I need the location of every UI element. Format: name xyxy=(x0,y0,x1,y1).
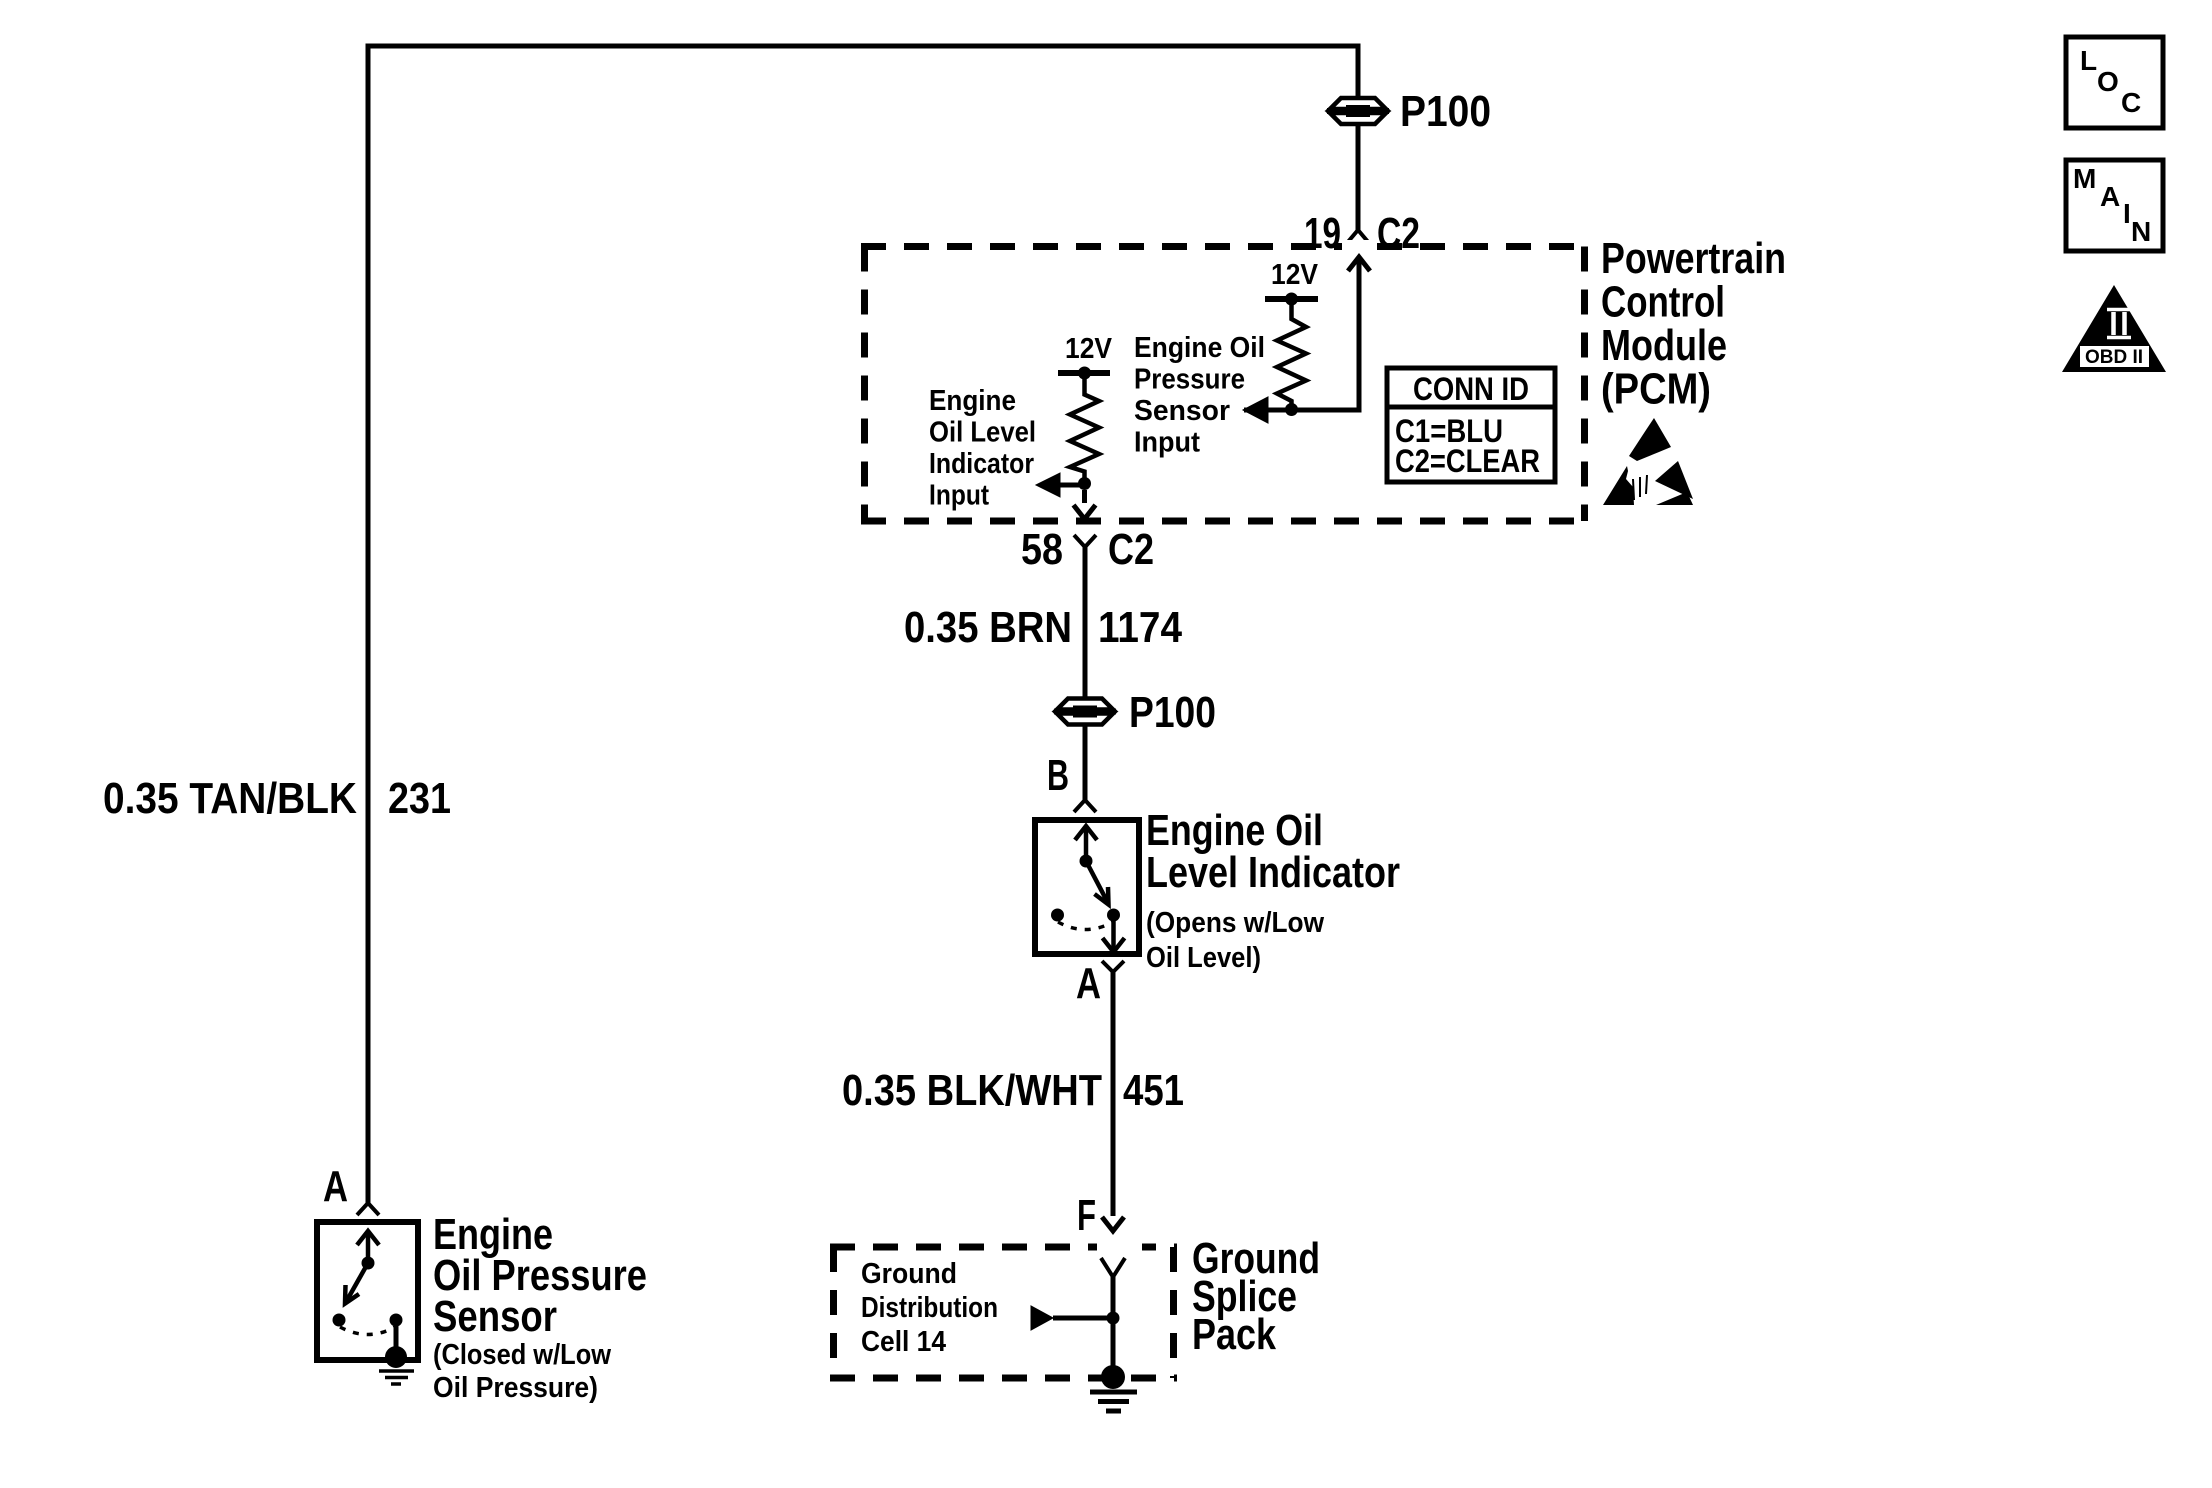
svg-text:M: M xyxy=(2073,163,2096,194)
sensor switch common arrow (pin A side) xyxy=(357,1231,379,1263)
svg-text:Pack: Pack xyxy=(1192,1310,1276,1359)
svg-text:0.35 BRN: 0.35 BRN xyxy=(904,603,1072,652)
svg-text:Sensor: Sensor xyxy=(1134,395,1230,427)
level indicator open contact dot (left) xyxy=(1051,909,1064,922)
node dot at bottom of R2 xyxy=(1285,403,1298,416)
feed from Ground Distribution Cell 14 xyxy=(1031,1306,1113,1330)
svg-text:Powertrain: Powertrain xyxy=(1601,234,1786,283)
splice junction dot xyxy=(1107,1312,1120,1325)
label (Opens w/Low Oil Level) xyxy=(1146,907,1324,974)
svg-text:Cell 14: Cell 14 xyxy=(861,1326,946,1358)
svg-text:Pressure: Pressure xyxy=(1134,364,1245,396)
svg-text:12V: 12V xyxy=(1065,333,1113,365)
svg-text:Indicator: Indicator xyxy=(929,448,1034,480)
svg-text:0.35 BLK/WHT: 0.35 BLK/WHT xyxy=(842,1066,1102,1115)
svg-text:Input: Input xyxy=(1134,427,1200,459)
wire 231 from sensor pin A up and across to P100 xyxy=(368,46,1358,1203)
label Engine Oil Pressure Sensor xyxy=(433,1210,647,1341)
label pin B xyxy=(1047,751,1069,800)
label pin A (pressure sensor) xyxy=(323,1162,348,1211)
level indicator dashed travel arc xyxy=(1058,922,1113,930)
sensor switch pivot dot xyxy=(362,1257,375,1270)
svg-text:B: B xyxy=(1047,751,1069,800)
Engine Oil Level Indicator box xyxy=(1035,820,1139,954)
level indicator switch arm (arrow toward closed contact) xyxy=(1086,861,1109,905)
svg-text:L: L xyxy=(2080,45,2097,76)
svg-text:1174: 1174 xyxy=(1098,603,1182,652)
svg-text:F: F xyxy=(1077,1191,1096,1240)
label Powertrain Control Module (PCM) xyxy=(1601,234,1786,414)
wire 1174 from pin 58 to P100 xyxy=(1083,547,1088,697)
12V supply bar (right resistor) xyxy=(1265,296,1318,302)
ESD susceptibility symbol xyxy=(1603,418,1693,505)
wire from P100 down to PCM pin 19 xyxy=(1356,124,1361,230)
wire from closed contact to sensor ground xyxy=(394,1320,399,1352)
svg-text:Oil Level): Oil Level) xyxy=(1146,942,1261,974)
arrowhead into ground splice pack at pin F xyxy=(1102,1217,1124,1231)
svg-text:58: 58 xyxy=(1021,525,1063,574)
label (Closed w/Low Oil Pressure) xyxy=(433,1339,611,1404)
arrowhead to Engine Oil Pressure Sensor Input xyxy=(1243,397,1268,423)
label pin 19 xyxy=(1304,209,1341,258)
svg-text:Engine: Engine xyxy=(929,385,1016,417)
arrowhead to Engine Oil Level Indicator Input xyxy=(1036,473,1084,497)
sensor closed contact dot (right) xyxy=(390,1314,403,1327)
svg-text:Control: Control xyxy=(1601,278,1725,327)
svg-text:C2: C2 xyxy=(1377,209,1420,258)
label Ground Splice Pack xyxy=(1192,1234,1320,1359)
svg-text:Ground: Ground xyxy=(861,1258,957,1290)
label Engine Oil Level Indicator Input xyxy=(929,385,1036,512)
wire from splice chevron to ground xyxy=(1111,1277,1116,1370)
label 12V (right) xyxy=(1271,259,1319,291)
svg-text:(PCM): (PCM) xyxy=(1601,365,1711,414)
svg-text:231: 231 xyxy=(388,774,451,823)
label Engine Oil Pressure Sensor Input xyxy=(1134,332,1265,459)
ground splice terminal dot xyxy=(1101,1365,1125,1389)
OBD II symbol triangle xyxy=(2062,285,2166,372)
label pin A (level indicator) xyxy=(1076,959,1101,1008)
label 0.35 BRN xyxy=(904,603,1072,652)
Engine Oil Pressure Sensor box xyxy=(317,1222,418,1360)
label 12V (left) xyxy=(1065,333,1113,365)
sensor dashed travel arc xyxy=(340,1327,395,1335)
ground symbol (pressure sensor) xyxy=(379,1371,414,1384)
wire from R1 bottom down to pin 58 with arrow xyxy=(1074,490,1096,519)
svg-text:C2: C2 xyxy=(1108,525,1154,574)
node dot at 12V bar (left resistor) xyxy=(1078,367,1091,380)
node dot at bottom of R1 xyxy=(1078,477,1091,490)
connector chevron pin B xyxy=(1074,800,1096,812)
svg-text:451: 451 xyxy=(1123,1066,1184,1115)
label P100 (top) xyxy=(1400,87,1491,136)
12V supply bar (left resistor) xyxy=(1058,370,1110,376)
label Engine Oil Level Indicator xyxy=(1146,806,1400,897)
connector chevron pin 58 C2 xyxy=(1074,535,1096,547)
ground symbol (splice pack) xyxy=(1090,1392,1137,1411)
resistor R2 (Engine Oil Pressure Sensor Input pull-up) xyxy=(1277,299,1306,410)
connector chevron pin A (level indicator) xyxy=(1102,961,1124,972)
CONN ID table xyxy=(1387,368,1555,482)
svg-text:A: A xyxy=(2100,181,2120,212)
label circuit 1174 xyxy=(1098,603,1182,652)
wire 451 from pin A to ground splice pack xyxy=(1111,972,1116,1216)
svg-text:A: A xyxy=(323,1162,348,1211)
svg-text:12V: 12V xyxy=(1271,259,1319,291)
svg-text:Input: Input xyxy=(929,480,989,512)
inline connector P100 (top) xyxy=(1327,98,1389,124)
svg-text:O: O xyxy=(2097,66,2119,97)
svg-text:P100: P100 xyxy=(1400,87,1491,136)
level indicator switch common arrow (pin B side) xyxy=(1075,826,1097,861)
svg-text:P100: P100 xyxy=(1129,688,1216,737)
label circuit 451 xyxy=(1123,1066,1184,1115)
MAIN reference box xyxy=(2066,160,2163,251)
level indicator output arrow (pin A side) xyxy=(1103,915,1125,952)
Ground Splice Pack dashed box xyxy=(830,1240,1177,1378)
level indicator switch pivot dot xyxy=(1080,855,1093,868)
svg-text:A: A xyxy=(1076,959,1101,1008)
label pin 58 xyxy=(1021,525,1063,574)
svg-text:Sensor: Sensor xyxy=(433,1292,557,1341)
svg-text:CONN ID: CONN ID xyxy=(1413,371,1529,407)
node dot at 12V bar (right resistor) xyxy=(1285,293,1298,306)
sensor open contact dot (left) xyxy=(333,1314,346,1327)
label C2 (top) xyxy=(1377,209,1420,258)
connector chevron pin 19 C2 xyxy=(1347,230,1369,243)
PCM dashed box xyxy=(861,240,1588,521)
level indicator closed contact dot (right) xyxy=(1107,909,1120,922)
svg-text:(Opens w/Low: (Opens w/Low xyxy=(1146,907,1324,939)
svg-text:Distribution: Distribution xyxy=(861,1292,998,1324)
LOC reference box xyxy=(2066,37,2163,128)
svg-text:N: N xyxy=(2131,216,2151,247)
connector chevron pin A (pressure sensor) xyxy=(357,1203,379,1215)
svg-text:(Closed w/Low: (Closed w/Low xyxy=(433,1339,611,1371)
svg-text:C: C xyxy=(2121,87,2141,118)
svg-text:Module: Module xyxy=(1601,321,1727,370)
svg-text:C2=CLEAR: C2=CLEAR xyxy=(1395,443,1540,479)
wire PCM input from pin 19 up-arrow xyxy=(1244,257,1370,410)
resistor R1 (Engine Oil Level Indicator Input pull-up) xyxy=(1070,373,1099,484)
label pin F xyxy=(1077,1191,1096,1240)
inline connector P100 (middle) xyxy=(1054,699,1116,725)
svg-text:19: 19 xyxy=(1304,209,1341,258)
svg-text:Oil Pressure): Oil Pressure) xyxy=(433,1372,598,1404)
label Ground Distribution Cell 14 xyxy=(861,1258,998,1358)
label 0.35 TAN/BLK xyxy=(103,774,357,823)
svg-text:Engine Oil: Engine Oil xyxy=(1134,332,1265,364)
label circuit 231 xyxy=(388,774,451,823)
connector chevron inside splice pack xyxy=(1101,1258,1125,1277)
svg-text:OBD II: OBD II xyxy=(2085,347,2143,368)
label P100 (middle) xyxy=(1129,688,1216,737)
wire from P100 to Engine Oil Level Indicator pin B xyxy=(1083,725,1088,801)
sensor ground terminal dot xyxy=(385,1346,407,1368)
sensor switch arm (arrow toward open contact) xyxy=(345,1263,368,1304)
svg-text:Level Indicator: Level Indicator xyxy=(1146,848,1400,897)
label C2 (bottom) xyxy=(1108,525,1154,574)
svg-text:Oil Level: Oil Level xyxy=(929,417,1036,449)
svg-text:0.35 TAN/BLK: 0.35 TAN/BLK xyxy=(103,774,357,823)
label 0.35 BLK/WHT xyxy=(842,1066,1102,1115)
svg-text:I: I xyxy=(2123,198,2131,229)
